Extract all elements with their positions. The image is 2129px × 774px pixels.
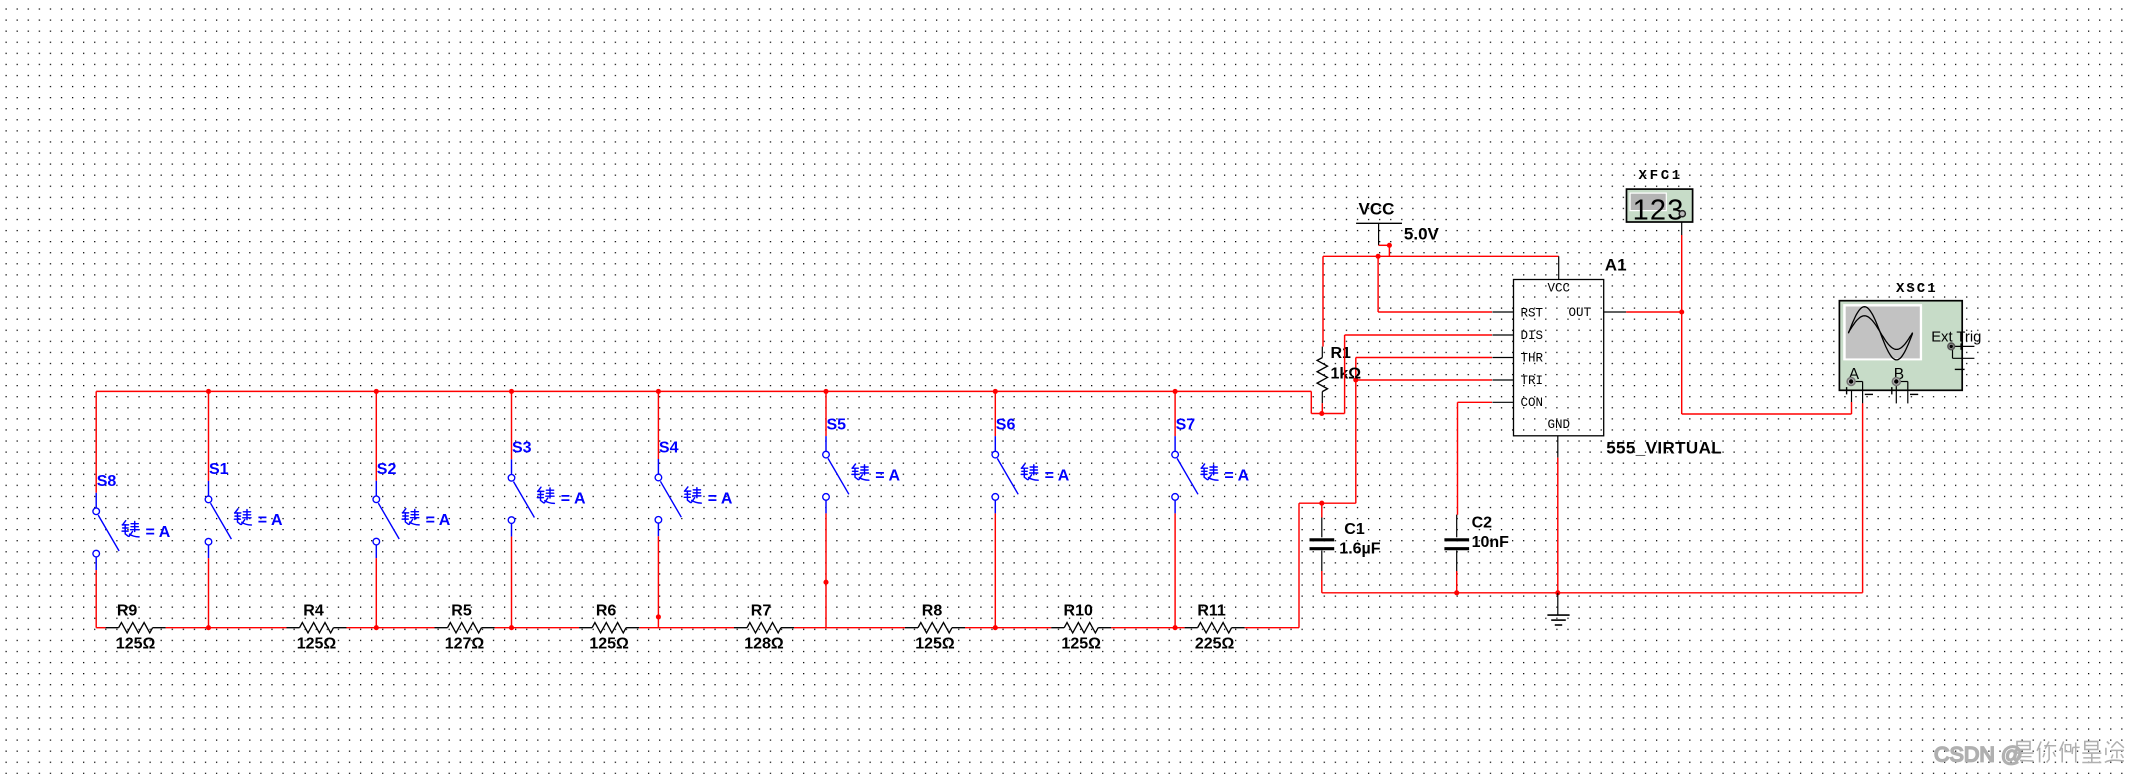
svg-text:555_VIRTUAL: 555_VIRTUAL <box>1606 439 1722 458</box>
svg-text:125Ω: 125Ω <box>915 636 955 653</box>
svg-text:127Ω: 127Ω <box>445 636 485 653</box>
svg-text:VCC: VCC <box>1548 282 1571 296</box>
svg-text:VCC: VCC <box>1359 199 1395 218</box>
svg-text:R4: R4 <box>303 603 324 620</box>
svg-text:1kΩ: 1kΩ <box>1331 365 1362 382</box>
svg-text:= A: = A <box>561 491 586 508</box>
svg-text:TRI: TRI <box>1521 374 1544 388</box>
svg-text:A1: A1 <box>1605 255 1627 274</box>
svg-text:THR: THR <box>1521 351 1544 365</box>
svg-text:OUT: OUT <box>1569 306 1592 320</box>
svg-text:XSC1: XSC1 <box>1896 281 1938 297</box>
svg-text:S1: S1 <box>209 461 229 478</box>
svg-text:S7: S7 <box>1176 416 1196 433</box>
svg-text:R8: R8 <box>922 603 943 620</box>
svg-text:CSDN @: CSDN @ <box>1934 743 2023 767</box>
svg-text:= A: = A <box>146 524 171 541</box>
svg-text:R6: R6 <box>596 603 617 620</box>
svg-text:10nF: 10nF <box>1472 534 1510 551</box>
svg-text:C2: C2 <box>1472 515 1493 532</box>
svg-text:= A: = A <box>426 512 451 529</box>
svg-text:R10: R10 <box>1064 603 1093 620</box>
svg-text:S2: S2 <box>377 461 397 478</box>
svg-text:GND: GND <box>1548 418 1571 432</box>
svg-text:S4: S4 <box>659 439 679 456</box>
svg-text:DIS: DIS <box>1521 329 1544 343</box>
svg-text:S5: S5 <box>827 416 847 433</box>
svg-text:R5: R5 <box>451 603 472 620</box>
svg-text:R11: R11 <box>1197 603 1226 620</box>
svg-text:= A: = A <box>875 467 900 484</box>
svg-text:125Ω: 125Ω <box>116 636 156 653</box>
svg-text:123: 123 <box>1633 194 1685 226</box>
svg-text:125Ω: 125Ω <box>297 636 337 653</box>
svg-text:125Ω: 125Ω <box>589 636 629 653</box>
svg-text:= A: = A <box>1224 467 1249 484</box>
svg-text:S3: S3 <box>512 440 532 457</box>
svg-text:C1: C1 <box>1344 521 1365 538</box>
svg-text:5.0V: 5.0V <box>1404 224 1440 243</box>
svg-text:225Ω: 225Ω <box>1195 636 1235 653</box>
svg-text:XFC1: XFC1 <box>1639 168 1683 184</box>
svg-text:S6: S6 <box>996 416 1016 433</box>
svg-text:= A: = A <box>708 490 733 507</box>
svg-text:R7: R7 <box>751 603 772 620</box>
svg-text:= A: = A <box>1045 467 1070 484</box>
svg-text:S8: S8 <box>97 473 117 490</box>
svg-text:128Ω: 128Ω <box>744 636 784 653</box>
svg-text:R1: R1 <box>1331 345 1352 362</box>
svg-text:R9: R9 <box>117 603 138 620</box>
svg-text:CON: CON <box>1521 396 1544 410</box>
svg-text:RST: RST <box>1521 307 1544 321</box>
svg-text:1.6µF: 1.6µF <box>1339 541 1380 558</box>
svg-text:125Ω: 125Ω <box>1061 636 1101 653</box>
svg-text:= A: = A <box>258 512 283 529</box>
svg-text:Ext Trig: Ext Trig <box>1931 330 1981 346</box>
